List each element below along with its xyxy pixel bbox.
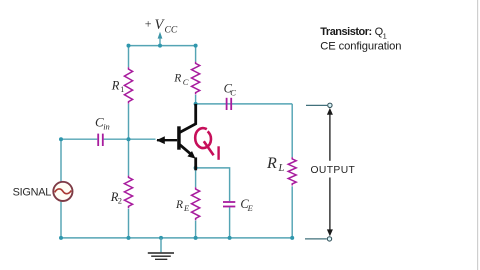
capacitor Cin xyxy=(98,134,103,146)
svg-text:in: in xyxy=(103,121,110,131)
svg-text:1: 1 xyxy=(120,85,124,94)
wire left column mid (R1 to base node) xyxy=(128,104,130,176)
svg-text:C: C xyxy=(183,77,189,87)
wire left column upper (Vcc to R1) xyxy=(128,46,130,68)
label RL xyxy=(266,155,285,174)
node bottom R2 xyxy=(127,236,131,240)
wire Cin row right (to base lead) xyxy=(104,138,156,140)
label R1 xyxy=(111,79,124,95)
right edge frame line xyxy=(477,0,478,270)
node Vcc tap xyxy=(158,44,162,48)
wire bottom rail xyxy=(61,237,292,239)
label CE xyxy=(240,197,253,213)
svg-text:R: R xyxy=(173,73,181,85)
node bottom RE xyxy=(194,236,198,240)
svg-text:2: 2 xyxy=(118,195,122,205)
node base junction xyxy=(127,137,131,141)
node emitter junction xyxy=(194,166,198,170)
svg-text:1: 1 xyxy=(383,31,387,40)
svg-text:OUTPUT: OUTPUT xyxy=(311,165,356,176)
resistor RL xyxy=(288,157,296,185)
wire collector column upper (rail to RC) xyxy=(195,46,197,62)
annotation Q1 handwritten xyxy=(195,128,218,160)
wire emitter branch to CE xyxy=(196,168,230,201)
svg-text:R: R xyxy=(111,79,120,93)
svg-text:R: R xyxy=(266,155,277,172)
resistor R1 xyxy=(124,67,132,103)
output terminal bottom xyxy=(305,237,332,241)
label +Vcc xyxy=(145,16,178,35)
label RC xyxy=(173,73,189,87)
svg-text:CC: CC xyxy=(165,26,178,36)
svg-text:E: E xyxy=(247,203,254,213)
transistor Q1 xyxy=(156,104,195,170)
wire Cin row left xyxy=(61,138,97,140)
node bottom signal xyxy=(59,236,63,240)
svg-text:+: + xyxy=(145,16,152,30)
svg-text:E: E xyxy=(183,203,190,213)
wire CE to bottom rail xyxy=(229,207,231,238)
label RE xyxy=(175,199,190,213)
label R2 xyxy=(110,190,122,205)
wire signal column lower xyxy=(60,201,62,238)
svg-text:R: R xyxy=(175,199,183,211)
resistor R2 xyxy=(124,176,132,209)
wire collector column lower (RC to collector node) xyxy=(195,95,197,104)
node top-left corner xyxy=(127,44,131,48)
node bottom CE xyxy=(228,236,232,240)
output arrow xyxy=(327,108,333,236)
label Transistor Q1 xyxy=(320,26,386,40)
node top-right corner xyxy=(194,44,198,48)
output terminal top xyxy=(306,103,332,107)
svg-text:CE configuration: CE configuration xyxy=(320,40,401,52)
wire top rail xyxy=(129,45,196,47)
capacitor CC xyxy=(227,98,232,110)
resistor RE xyxy=(192,187,200,220)
label CC xyxy=(224,82,237,98)
wire collector output row xyxy=(196,103,293,105)
resistor RC xyxy=(192,62,200,95)
node bottom right corner xyxy=(290,236,294,240)
wire right column upper (to RL) xyxy=(291,104,293,157)
node signal top corner xyxy=(59,137,63,141)
Vcc supply arrow xyxy=(158,32,163,46)
wire RE to bottom rail xyxy=(195,221,197,238)
wire right column lower (RL to bottom rail) xyxy=(291,186,293,238)
svg-text:C: C xyxy=(230,87,236,97)
signal source xyxy=(53,182,72,201)
wire emitter to RE xyxy=(195,170,197,188)
wire signal column upper xyxy=(60,139,62,182)
svg-text:Transistor:: Transistor: xyxy=(320,26,371,38)
svg-text:L: L xyxy=(278,163,285,174)
ground xyxy=(148,238,174,259)
label Cin xyxy=(95,114,110,131)
svg-text:SIGNAL: SIGNAL xyxy=(13,186,52,198)
node collector junction xyxy=(194,102,198,106)
node bottom ground tap xyxy=(159,236,163,240)
capacitor CE xyxy=(223,202,235,207)
wire left column lower (R2 to ground rail) xyxy=(128,209,130,238)
